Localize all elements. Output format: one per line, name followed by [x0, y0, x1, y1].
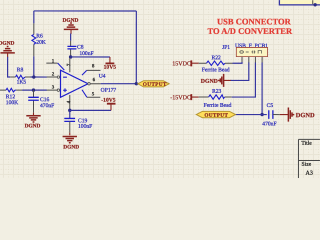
- svg-text:DGND: DGND: [63, 144, 79, 150]
- connector pin stubs: [242, 57, 262, 63]
- wire DGND to R8: [8, 57, 11, 77]
- wire pin4 junction to -10V5: [70, 109, 111, 111]
- wire feedback right vertical: [135, 11, 137, 84]
- svg-text:C5: C5: [267, 103, 274, 109]
- op-amp pin 6 output with circle: [88, 78, 101, 85]
- svg-text:R23: R23: [212, 89, 222, 95]
- ground DGND below C16: [25, 113, 41, 130]
- svg-text:1K5: 1K5: [17, 80, 27, 86]
- power port -15VDC: [170, 94, 198, 101]
- wire R22 to JP1 pin1: [233, 62, 243, 63]
- op-amp U4: [60, 70, 116, 97]
- wire JP1 pin2 to DGND: [230, 63, 249, 81]
- junction R12/C16/pin3: [32, 88, 35, 91]
- capacitor C19: [64, 118, 92, 132]
- op-amp pin 2 (-): [34, 73, 60, 79]
- power port 10V5: [104, 57, 117, 71]
- op-amp pin 5 (trim): [82, 90, 100, 98]
- wire JP1 pin4 down to C5 junction: [261, 63, 263, 115]
- wire R23 to JP1 pin3: [232, 63, 256, 98]
- ground DGND left (feeds R8): [0, 41, 15, 58]
- op-amp pin 4 (V-): [67, 95, 72, 110]
- wire R12 to pin3: [22, 89, 35, 91]
- title block: [298, 139, 320, 178]
- svg-text:A3: A3: [306, 171, 313, 177]
- svg-text:OUTPUT: OUTPUT: [143, 82, 167, 88]
- svg-text:U4: U4: [99, 74, 106, 80]
- power port -10V5: [101, 98, 116, 111]
- port OUTPUT (left): [138, 81, 169, 88]
- capacitor C5: [262, 103, 277, 127]
- junction C8 / pin7 / 10V5: [69, 55, 72, 58]
- svg-text:OP177: OP177: [101, 88, 117, 94]
- op-amp pin 1 (trim): [46, 59, 64, 70]
- resistor R23 Ferrite Bead: [199, 89, 232, 109]
- svg-text:-15VDC: -15VDC: [170, 95, 191, 101]
- wire R6 to junction: [33, 56, 35, 77]
- svg-text:-10V5: -10V5: [101, 98, 115, 104]
- svg-text:DGND: DGND: [0, 41, 15, 47]
- op-amp pin 3 (+): [33, 86, 59, 92]
- clipped part top right: [279, 0, 320, 6]
- svg-text:JP1: JP1: [222, 45, 230, 51]
- resistor R22 Ferrite Bead: [199, 55, 233, 73]
- svg-text:10V5: 10V5: [104, 65, 117, 71]
- junction C5/OUTPUT: [260, 113, 263, 116]
- svg-text:DGND: DGND: [296, 112, 315, 119]
- svg-text:470nF: 470nF: [40, 103, 54, 109]
- svg-text:R8: R8: [17, 67, 24, 73]
- resistor R6: [32, 23, 46, 56]
- wire junction to 10V5: [71, 56, 110, 58]
- svg-text:470nF: 470nF: [262, 121, 276, 127]
- schematic title text: [208, 16, 293, 36]
- svg-text:DGND: DGND: [201, 79, 218, 85]
- svg-text:100nF: 100nF: [79, 51, 93, 57]
- svg-text:15VDC: 15VDC: [172, 61, 191, 67]
- svg-text:100nF: 100nF: [78, 124, 92, 130]
- svg-text:20K: 20K: [36, 40, 46, 46]
- svg-text:R6: R6: [36, 34, 43, 40]
- wire R8 to pin2: [31, 76, 36, 78]
- ground DGND (JP1 pin2, sideways left): [201, 74, 231, 87]
- svg-text:Size: Size: [302, 162, 312, 168]
- svg-text:R22: R22: [212, 55, 222, 61]
- ground DGND top (above C8): [63, 18, 79, 34]
- ground DGND below C19: [63, 133, 80, 151]
- op-amp pin 7 (V+): [67, 58, 72, 72]
- junction output/feedback: [135, 82, 138, 85]
- svg-text:OUTPUT: OUTPUT: [204, 113, 228, 119]
- svg-text:Title: Title: [301, 141, 312, 147]
- wire pin6 to OUTPUT: [101, 83, 138, 85]
- resistor R12: [0, 88, 22, 106]
- connector JP1 body: [236, 47, 267, 56]
- svg-text:DGND: DGND: [25, 123, 41, 129]
- op-amp pin 8 (NC): [82, 64, 101, 75]
- svg-text:Ferrite Bead: Ferrite Bead: [204, 103, 232, 109]
- resistor R8: [10, 67, 30, 85]
- junction R6/R8/pin2: [32, 75, 35, 78]
- wire feedback left vertical above R6: [33, 11, 35, 23]
- wire DGND to C8: [70, 33, 72, 40]
- power port 15VDC: [172, 60, 198, 67]
- junction pin4/C19/-10V5: [68, 109, 71, 112]
- capacitor C8: [67, 41, 93, 57]
- port OUTPUT (right, arrow left): [196, 111, 235, 118]
- svg-text:100K: 100K: [6, 100, 18, 106]
- svg-text:Ferrite Bead: Ferrite Bead: [202, 67, 230, 73]
- svg-text:C8: C8: [77, 45, 84, 51]
- capacitor C16: [28, 90, 54, 113]
- wire junction to C19: [69, 110, 71, 118]
- wire junction to OUTPUT port: [235, 114, 262, 116]
- svg-text:TO A/D CONVERTER: TO A/D CONVERTER: [208, 26, 293, 36]
- ground DGND right of C5 (sideways right): [273, 107, 315, 121]
- wire feedback top horizontal: [34, 10, 136, 12]
